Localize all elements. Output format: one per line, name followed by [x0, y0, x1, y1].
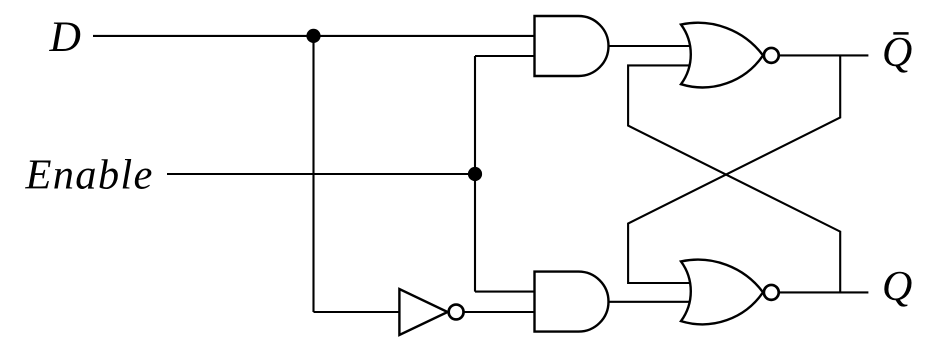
svg-text:Q: Q [882, 30, 912, 76]
svg-text:Enable: Enable [25, 152, 154, 199]
svg-text:D: D [49, 13, 81, 61]
svg-text:Q: Q [882, 264, 912, 310]
